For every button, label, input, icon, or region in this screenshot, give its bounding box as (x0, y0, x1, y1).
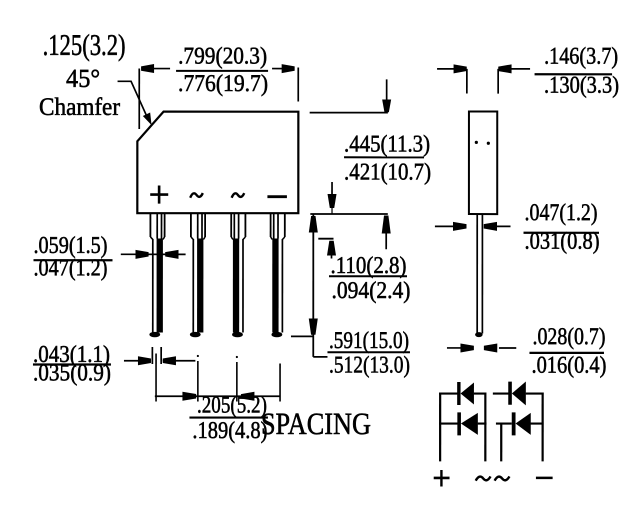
svg-text:.512(13.0): .512(13.0) (329, 353, 410, 379)
svg-text:.094(2.4): .094(2.4) (331, 278, 410, 304)
lead 1 (150, 213, 164, 337)
body outline front view (137, 112, 298, 214)
arrow .445 top (386, 79, 388, 100)
dim line .059 (121, 253, 186, 255)
svg-text:.047(1.2): .047(1.2) (33, 255, 107, 281)
leader bend to .591 text (313, 356, 327, 358)
dim line .799 right (272, 68, 293, 70)
svg-text:.031(0.8): .031(0.8) (525, 229, 600, 255)
arrow .110 bottom (330, 247, 332, 259)
svg-text:.421(10.7): .421(10.7) (344, 160, 431, 186)
extension line lead shoulder (318, 238, 333, 240)
extension line body bottom right (310, 213, 388, 215)
dim .047 right (489, 225, 511, 227)
spacing dimension (155, 395, 280, 397)
schematic ac tilde 1 (476, 476, 491, 480)
extension line below lead 3 (236, 362, 238, 402)
svg-text:.035(0.9): .035(0.9) (33, 360, 111, 386)
dim line .799 left (142, 68, 170, 70)
wire top mid (474, 392, 486, 394)
ac tilde symbol 2 on body (232, 193, 245, 198)
dim .047 left (435, 225, 456, 227)
wire row2 right of gap (496, 422, 512, 424)
dim .146 left (437, 68, 456, 70)
svg-text:.125(3.2): .125(3.2) (43, 29, 126, 62)
svg-text:.146(3.7): .146(3.7) (544, 44, 618, 70)
svg-text:SPACING: SPACING (261, 406, 371, 441)
schematic ac tilde 2 (495, 476, 510, 480)
ac tilde symbol 1 on body (190, 193, 203, 198)
lead 4 (271, 213, 285, 337)
svg-text:.016(0.4): .016(0.4) (531, 353, 606, 379)
svg-text:.130(3.3): .130(3.3) (544, 73, 619, 99)
schematic plus terminal (434, 477, 450, 480)
extension line below lead 1 (155, 353, 157, 401)
extension line lead tip right (291, 335, 314, 337)
vertical B (500, 424, 502, 462)
lead 2 (191, 213, 205, 337)
extension line body top right (310, 112, 388, 114)
arrow .110 top (331, 182, 333, 198)
svg-text:.028(0.7): .028(0.7) (532, 324, 605, 350)
lead 3 (231, 213, 245, 337)
dim .146 right (509, 68, 530, 70)
wire top left (439, 392, 458, 394)
extension line left of .799 (138, 69, 140, 129)
svg-text:.047(1.2): .047(1.2) (525, 200, 598, 226)
extension line below lead 4 (279, 363, 281, 401)
wire top right of gap (493, 392, 509, 394)
left rail (439, 392, 441, 461)
dim .028 right (499, 347, 516, 349)
schematic minus terminal (536, 477, 553, 480)
arrow .445 bottom (385, 222, 387, 249)
svg-text:.799(20.3): .799(20.3) (178, 43, 267, 69)
svg-text:.110(2.8): .110(2.8) (330, 253, 406, 279)
plus symbol on body (150, 193, 168, 196)
wire row2 left (439, 422, 458, 424)
vertical A (484, 392, 486, 461)
svg-text:.776(19.7): .776(19.7) (178, 71, 268, 97)
dim line .043 (124, 360, 151, 362)
chamfer leader arrowhead (143, 113, 152, 126)
side view body (469, 111, 497, 214)
svg-text:.591(15.0): .591(15.0) (329, 328, 409, 354)
wire top far right (526, 392, 544, 394)
svg-text:.189(4.8): .189(4.8) (192, 418, 267, 444)
minus symbol on body (267, 195, 287, 198)
dim line .591 vertical (312, 214, 314, 357)
extension line below lead 2 (197, 361, 199, 401)
right rail (542, 392, 544, 461)
svg-text:.445(11.3): .445(11.3) (344, 132, 430, 158)
extension ticks lead tip (151, 347, 153, 364)
diode D2 (508, 381, 526, 405)
side view lead (476, 214, 478, 333)
dim .028 left (447, 347, 462, 349)
wire row2 mid (478, 422, 487, 424)
diode D3 (457, 412, 478, 435)
svg-text:Chamfer: Chamfer (39, 94, 121, 121)
wire row2 far right (531, 422, 544, 424)
chamfer leader line (118, 81, 148, 118)
svg-text:45°: 45° (66, 64, 100, 93)
extension line right of .799 (297, 67, 299, 101)
diode D1 (457, 382, 474, 405)
diode D4 (512, 412, 531, 435)
svg-text:.205(5.2): .205(5.2) (197, 392, 267, 418)
